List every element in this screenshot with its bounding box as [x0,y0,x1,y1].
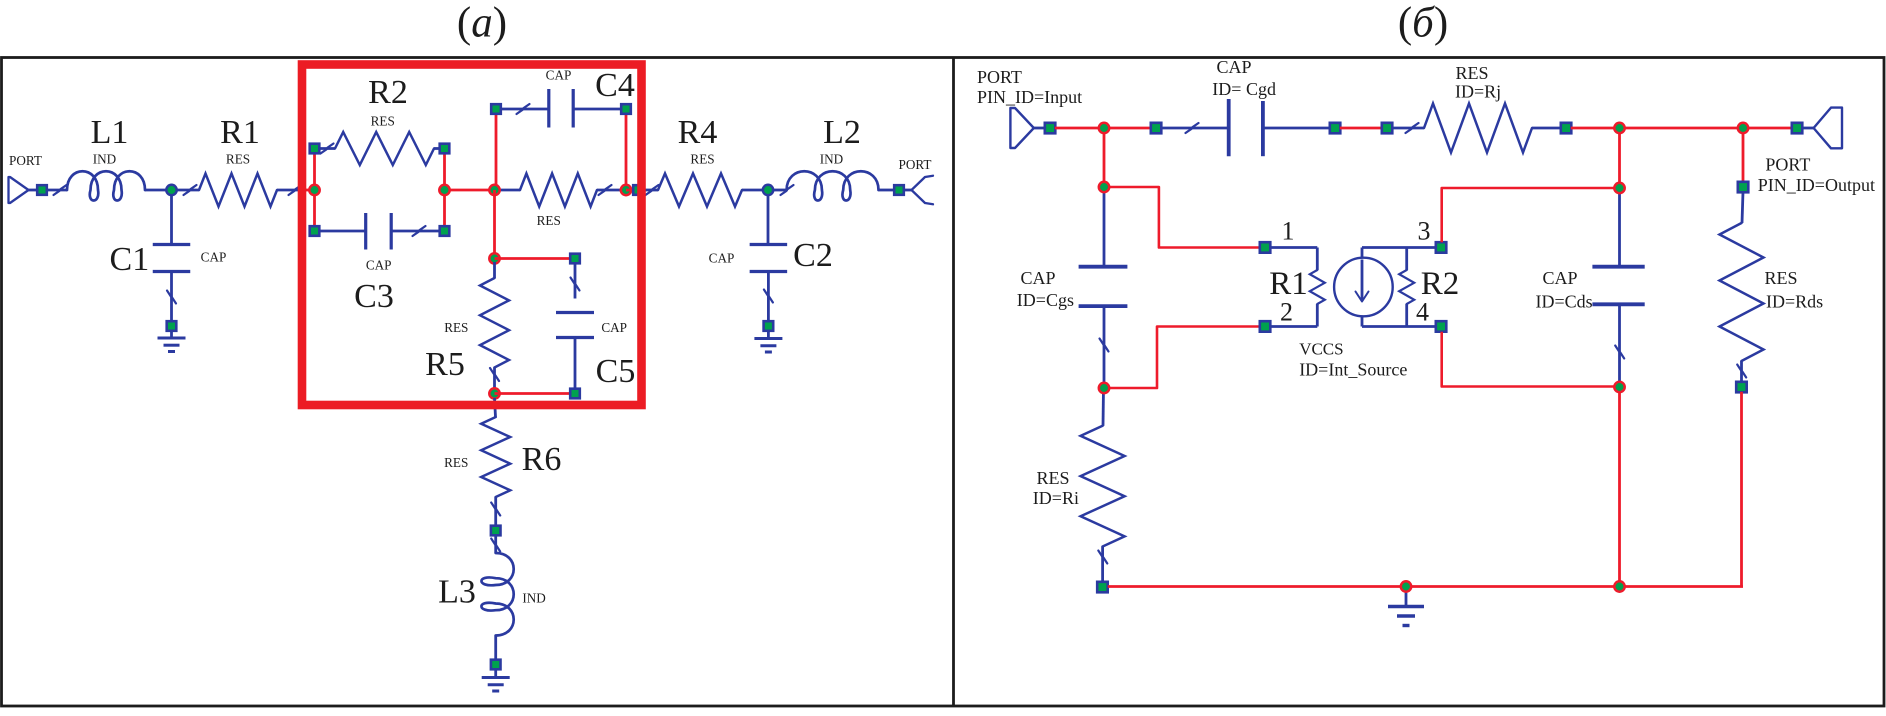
svg-text:CAP: CAP [601,320,627,335]
svg-text:ID= Cgd: ID= Cgd [1212,79,1276,99]
svg-text:IND: IND [93,152,116,167]
svg-text:RES: RES [226,152,250,167]
svg-text:ID=Cgs: ID=Cgs [1017,290,1074,310]
svg-text:R4: R4 [678,114,718,151]
svg-text:PORT: PORT [1765,155,1810,175]
svg-text:RES: RES [1036,468,1069,488]
svg-text:PORT: PORT [9,153,42,168]
svg-text:ID=Int_Source: ID=Int_Source [1299,360,1407,380]
svg-text:L2: L2 [823,114,861,151]
svg-text:L3: L3 [438,574,476,611]
svg-text:ID=Rds: ID=Rds [1766,292,1823,312]
svg-text:CAP: CAP [1542,268,1577,288]
svg-text:CAP: CAP [546,68,572,83]
svg-text:1: 1 [1282,217,1295,246]
svg-text:R6: R6 [522,441,562,478]
svg-text:3: 3 [1418,217,1431,246]
svg-text:PORT: PORT [977,67,1022,87]
svg-text:PIN_ID=Output: PIN_ID=Output [1758,175,1875,195]
svg-text:RES: RES [1764,268,1797,288]
svg-text:RES: RES [444,320,468,335]
svg-text:RES: RES [690,152,714,167]
svg-text:CAP: CAP [1020,268,1055,288]
svg-text:RES: RES [1455,63,1488,83]
svg-text:R2: R2 [368,74,408,111]
svg-text:C1: C1 [110,241,150,278]
svg-text:L1: L1 [91,114,129,151]
svg-text:IND: IND [820,152,843,167]
svg-text:R5: R5 [425,346,465,383]
svg-text:R1: R1 [220,114,260,151]
svg-text:PIN_ID=Input: PIN_ID=Input [977,87,1082,107]
svg-text:C2: C2 [793,237,833,274]
svg-text:PORT: PORT [899,157,932,172]
svg-text:C3: C3 [354,278,394,315]
svg-text:R2: R2 [1421,266,1460,302]
svg-text:IND: IND [522,591,545,606]
svg-text:RES: RES [444,455,468,470]
svg-text:CAP: CAP [1216,57,1251,77]
svg-text:R1: R1 [1269,266,1308,302]
svg-text:CAP: CAP [366,258,392,273]
svg-text:ID=Ri: ID=Ri [1033,488,1079,508]
svg-text:RES: RES [537,213,561,228]
svg-text:CAP: CAP [709,250,735,265]
svg-text:C5: C5 [596,353,636,390]
svg-text:CAP: CAP [201,249,227,264]
svg-text:ID=Cds: ID=Cds [1536,292,1593,312]
svg-text:(a): (a) [457,0,507,47]
svg-text:C4: C4 [595,67,635,104]
svg-text:RES: RES [371,114,395,129]
svg-text:(б): (б) [1398,0,1448,47]
svg-text:ID=Rj: ID=Rj [1455,82,1501,102]
svg-text:VCCS: VCCS [1299,340,1343,359]
